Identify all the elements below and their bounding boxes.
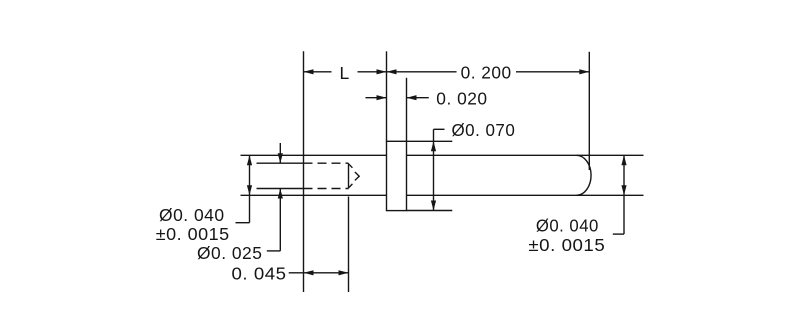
svg-text:Ø0. 040: Ø0. 040 bbox=[536, 215, 599, 235]
dimension diameter 0.025 upper segment bbox=[279, 143, 281, 163]
dimension 0.045 right arrowhead bbox=[339, 270, 349, 275]
pin body bottom edge (left of flange) bbox=[304, 194, 387, 196]
dimension diameter 0.070 lower arrowhead bbox=[431, 201, 436, 211]
dimension 0.200 right arrowhead bbox=[579, 69, 589, 74]
dimension 0.020 left approach line bbox=[366, 97, 387, 99]
dimension 0.045 line with text leader bbox=[289, 272, 349, 274]
dimension diameter 0.040 right lower arrowhead bbox=[621, 185, 626, 195]
dimension diameter 0.070 leader elbow bbox=[434, 128, 445, 130]
dimension L left arrowhead bbox=[304, 69, 314, 74]
dimension diameter 0.040 left leader elbow bbox=[236, 222, 250, 224]
dimension L right arrowhead bbox=[377, 69, 387, 74]
dimension L line left segment bbox=[304, 71, 332, 73]
dimension diameter 0.070 upper arrowhead bbox=[431, 141, 436, 151]
svg-text:±0. 0015: ±0. 0015 bbox=[528, 235, 605, 255]
extension line hole top edge to left bbox=[257, 162, 304, 164]
extension line hole bottom edge to left bbox=[257, 188, 304, 190]
drill point upper slant dash bbox=[349, 164, 352, 168]
hidden hole bottom edge (dashed) bbox=[304, 188, 349, 190]
dimension diameter 0.040 right vertical line bbox=[623, 155, 625, 234]
hidden hole top edge (dashed) bbox=[304, 162, 349, 164]
svg-text:Ø0. 025: Ø0. 025 bbox=[197, 243, 262, 263]
svg-text:L: L bbox=[340, 63, 350, 83]
dimension 0.200 left arrowhead bbox=[387, 69, 397, 74]
dimension diameter 0.040 right leader elbow bbox=[613, 233, 624, 235]
pin body top edge (right of flange, collinear with right diameter extension line) bbox=[407, 154, 644, 156]
dimension 0.020 left arrowhead bbox=[377, 95, 387, 100]
extension line at flange right edge bbox=[406, 78, 408, 142]
flange (collar) bbox=[387, 141, 407, 210]
svg-text:0. 020: 0. 020 bbox=[436, 89, 487, 109]
dimension diameter 0.040 left vertical line bbox=[249, 155, 251, 222]
pin body bottom edge (right of flange, collinear with right diameter extension line) bbox=[407, 194, 644, 196]
drill point lower slant dash bbox=[349, 184, 352, 188]
hidden hole flat bottom bbox=[348, 163, 350, 188]
dimension 0.200 line left segment bbox=[387, 71, 457, 73]
extension line at flange left edge bbox=[386, 51, 388, 141]
dimension diameter 0.070 vertical line bbox=[433, 129, 435, 210]
pin rounded right end cap bbox=[577, 155, 592, 195]
svg-text:±0. 0015: ±0. 0015 bbox=[156, 224, 230, 244]
drill point tip chevron bbox=[355, 172, 359, 180]
svg-text:0. 200: 0. 200 bbox=[461, 62, 512, 82]
extension line flange bottom to right bbox=[407, 210, 453, 212]
dimension diameter 0.040 right upper arrowhead bbox=[621, 155, 626, 165]
dimension 0.020 right arrowhead bbox=[407, 95, 417, 100]
svg-text:0. 045: 0. 045 bbox=[232, 263, 287, 283]
dimension 0.020 right approach line bbox=[407, 97, 429, 99]
svg-text:Ø0. 040: Ø0. 040 bbox=[159, 205, 225, 225]
dimension 0.200 line right segment bbox=[516, 71, 589, 73]
svg-text:Ø0. 070: Ø0. 070 bbox=[452, 120, 516, 140]
dimension diameter 0.025 upper arrowhead bbox=[278, 153, 283, 163]
dimension diameter 0.025 lower segment bbox=[279, 189, 281, 251]
dimension diameter 0.025 lower arrowhead bbox=[278, 189, 283, 199]
extension line at hole bottom (depth) bbox=[348, 197, 350, 293]
extension line at pin left face bbox=[303, 51, 305, 292]
dimension L line right segment bbox=[358, 71, 387, 73]
dimension 0.045 left arrowhead bbox=[304, 270, 314, 275]
extension line at pin right end bbox=[588, 52, 590, 170]
extension line pin bottom edge to left bbox=[241, 194, 304, 196]
dimension diameter 0.040 left lower arrowhead bbox=[247, 185, 252, 195]
pin body top edge (left of flange) bbox=[304, 154, 387, 156]
extension line flange top to right bbox=[407, 140, 453, 142]
extension line pin top edge to left bbox=[241, 154, 304, 156]
dimension diameter 0.025 leader elbow bbox=[267, 250, 281, 252]
dimension diameter 0.040 left upper arrowhead bbox=[247, 155, 252, 165]
